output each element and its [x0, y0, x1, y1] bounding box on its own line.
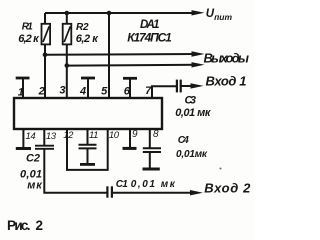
node dot output B at pin3	[65, 63, 70, 68]
wire C3 to input1 arrow	[181, 85, 198, 87]
wire pin7 up and to C3	[152, 86, 176, 98]
svg-text:10: 10	[109, 130, 120, 141]
svg-text:7: 7	[145, 85, 152, 97]
svg-text:R1: R1	[22, 22, 33, 33]
svg-text:0,01мк: 0,01мк	[176, 149, 208, 160]
svg-text:6,2 к: 6,2 к	[18, 33, 40, 45]
svg-text:6,2 к: 6,2 к	[76, 33, 99, 45]
svg-text:С3: С3	[185, 95, 197, 107]
wire R2 bottom to pin3	[66, 44, 68, 98]
svg-text:С1: С1	[116, 179, 128, 190]
svg-text:9: 9	[132, 129, 138, 140]
capacitor on pin11	[79, 145, 97, 149]
wire pin11 to cap	[87, 129, 89, 144]
svg-text:12: 12	[63, 130, 74, 141]
svg-text:Выходы: Выходы	[204, 51, 250, 66]
svg-text:0,01 мк: 0,01 мк	[175, 107, 212, 119]
wire pin14 to ground	[22, 129, 24, 147]
wire pin9 to ground	[129, 129, 131, 147]
arrow Uпит	[192, 10, 205, 15]
wire R2 top lead	[66, 13, 68, 24]
wire output A	[45, 53, 198, 56]
wire R1 top lead	[44, 13, 46, 24]
arrow Вход 1	[191, 83, 204, 88]
wire top power rail	[45, 12, 198, 14]
capacitor C3	[177, 80, 181, 93]
svg-text:Вход 1: Вход 1	[206, 74, 247, 89]
svg-text:К174ПС1: К174ПС1	[127, 31, 172, 45]
svg-text:3: 3	[59, 85, 65, 97]
ground bar pin14	[16, 147, 31, 150]
svg-text:DA1: DA1	[140, 19, 160, 31]
arrow output B	[192, 62, 205, 67]
ground bar above pin6	[123, 77, 137, 80]
ground stub above pin1	[22, 78, 24, 98]
ground bar pin9	[123, 147, 137, 150]
ground stub above pin6	[129, 79, 131, 99]
capacitor C2	[35, 146, 54, 149]
IC DA1 body	[14, 98, 162, 129]
wire C2 down then right to C1	[44, 150, 106, 193]
svg-text:14: 14	[26, 131, 36, 142]
ground bar under C4	[143, 168, 160, 171]
wire C1 to input2 arrow	[113, 192, 197, 194]
svg-text:6: 6	[124, 86, 131, 98]
svg-text:R2: R2	[76, 22, 89, 33]
node dot top rail at pin5	[107, 11, 112, 16]
arrow output A	[192, 51, 205, 56]
arrow Вход 2	[190, 190, 203, 195]
svg-text:11: 11	[89, 130, 98, 141]
svg-text:5: 5	[101, 85, 108, 97]
svg-text:1: 1	[18, 86, 24, 98]
svg-text:2: 2	[36, 218, 44, 233]
ground bar under pin11 cap	[80, 163, 95, 166]
resistor R2	[63, 24, 72, 45]
svg-text:0,01 мк: 0,01 мк	[131, 179, 176, 190]
svg-text:13: 13	[46, 131, 57, 142]
svg-text:4: 4	[79, 86, 86, 98]
svg-text:8: 8	[153, 129, 159, 140]
node dot top rail at R2	[65, 11, 70, 16]
svg-text:С4: С4	[178, 135, 189, 146]
svg-text:мк: мк	[27, 179, 43, 191]
wire pin5 to power rail	[108, 13, 110, 98]
speck artifact	[220, 168, 222, 170]
wire C4 to ground	[149, 153, 151, 168]
capacitor C1	[107, 186, 112, 197]
wire pin11 cap bottom lead	[87, 149, 89, 164]
svg-text:Вход 2: Вход 2	[204, 180, 251, 195]
wire pin8 to C4	[149, 129, 151, 148]
wire pin12 to pin10 U-loop	[67, 129, 108, 170]
ground stub above pin4	[87, 78, 89, 98]
capacitor C4	[143, 148, 161, 152]
wire pin13 to C2	[43, 129, 45, 145]
wire output B	[67, 64, 198, 67]
svg-text:С2: С2	[26, 153, 40, 165]
ground bar above pin4	[81, 77, 95, 80]
svg-text:Рис.: Рис.	[7, 218, 31, 233]
ground bar above pin1	[16, 77, 30, 80]
wire R1 bottom to pin2	[44, 44, 46, 98]
svg-text:2: 2	[38, 86, 45, 98]
resistor R1	[42, 24, 51, 45]
node dot output A at pin2	[43, 52, 48, 57]
